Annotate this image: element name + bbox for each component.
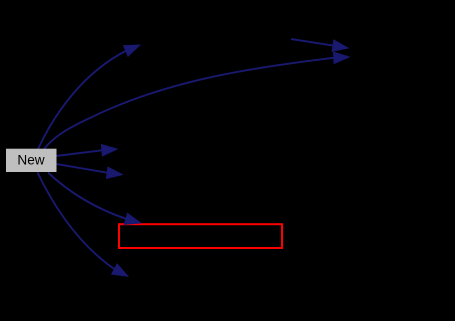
node New [7,149,57,171]
edge New->n4 [56,145,117,156]
node red (truncated node) [119,224,282,248]
edge New->n5 [56,164,122,179]
svg-text:New: New [17,153,44,168]
edge New->n3 [44,52,349,149]
edge New->n7 [38,173,128,277]
edge New->n2 [38,45,140,149]
edge n2->n3 [291,39,348,51]
edge New->n6 [48,173,141,225]
